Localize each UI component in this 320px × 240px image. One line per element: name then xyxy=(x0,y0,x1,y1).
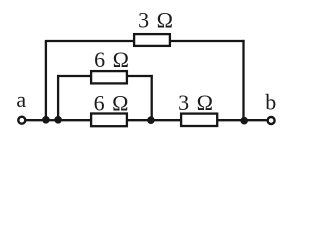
wire middle-branch left vertical xyxy=(57,75,59,120)
wire node2 to resistor R3 (bottom rail) xyxy=(58,119,92,121)
wire node3 to resistor R4 (bottom rail) xyxy=(152,119,181,121)
wire middle-branch right horizontal xyxy=(127,75,153,77)
wire top-branch left horizontal xyxy=(45,40,134,42)
junction node 3 xyxy=(147,116,155,124)
junction node 4 xyxy=(240,117,248,125)
svg-text:a: a xyxy=(16,87,27,112)
resistor R2 6 ohm (middle branch) xyxy=(91,71,127,83)
resistor R3 6 ohm (bottom rail) xyxy=(91,114,127,127)
svg-text:6 Ω: 6 Ω xyxy=(94,47,130,72)
wire R4 to node4 (bottom rail) xyxy=(217,119,244,121)
terminal b xyxy=(268,117,275,124)
svg-text:3 Ω: 3 Ω xyxy=(178,90,214,115)
svg-text:3 Ω: 3 Ω xyxy=(138,8,174,33)
terminal a xyxy=(18,117,25,124)
wire a to node1 (bottom rail) xyxy=(26,119,46,121)
resistor R1 3 ohm (top branch) xyxy=(134,34,170,46)
wire node1 to node2 (bottom rail) xyxy=(46,119,58,121)
svg-text:b: b xyxy=(265,90,277,115)
junction node 1 xyxy=(42,116,50,124)
wire middle-branch right vertical xyxy=(151,75,153,120)
wire middle-branch left horizontal xyxy=(57,75,92,77)
svg-text:6 Ω: 6 Ω xyxy=(94,91,130,116)
wire top-branch left vertical xyxy=(45,41,47,120)
wire R3 to node3 (bottom rail) xyxy=(127,119,152,121)
wire top-branch right vertical xyxy=(242,40,244,120)
wire top-branch right horizontal xyxy=(170,40,245,42)
resistor R4 3 ohm (bottom rail) xyxy=(181,114,217,126)
junction node 2 xyxy=(54,116,62,124)
wire node4 to b xyxy=(244,119,266,121)
